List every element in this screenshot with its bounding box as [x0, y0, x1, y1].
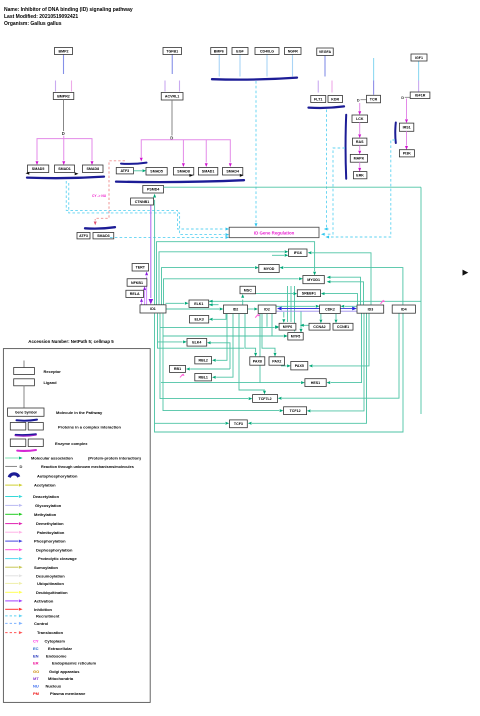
wire VEGFA to FLT1 KDR — [324, 56, 326, 77]
svg-text:Ubiquitination: Ubiquitination — [37, 581, 64, 586]
wire IRS1 to PI3K — [406, 131, 408, 145]
svg-text:D: D — [357, 97, 360, 102]
wire TCR chain LCK RAS MAPK ERK — [359, 103, 361, 111]
association MYF6 right line — [300, 324, 309, 326]
node RB1 — [170, 365, 186, 372]
node SMAD1 row2 — [198, 168, 217, 176]
svg-text:Glycosylation: Glycosylation — [35, 503, 62, 508]
svg-text:BMP2: BMP2 — [59, 49, 69, 53]
association right edge bus — [420, 187, 422, 414]
wire BMP2 to BMPR2 — [63, 55, 65, 75]
legend phosphorylation — [5, 540, 18, 542]
node SMAD4 row2 — [223, 168, 243, 176]
svg-text:MYF6: MYF6 — [283, 325, 293, 329]
svg-text:NGFR: NGFR — [288, 49, 299, 53]
node CD40LG — [255, 48, 279, 55]
svg-text:Cytoplasm: Cytoplasm — [45, 639, 66, 644]
node PAX2 — [269, 357, 285, 365]
association ID3 to CDK2 — [345, 305, 357, 307]
activation ID1 to TERT — [146, 277, 148, 305]
node SMAD3 — [93, 233, 114, 239]
svg-text:PAX2: PAX2 — [272, 359, 281, 363]
svg-text:IGF1: IGF1 — [415, 56, 423, 60]
svg-text:ELK4: ELK4 — [192, 341, 201, 345]
svg-text:PSMD4: PSMD4 — [147, 188, 159, 192]
svg-text:Recruitment: Recruitment — [36, 614, 60, 619]
svg-text:VEGFA: VEGFA — [319, 50, 332, 54]
association ID1 down-bus A TCF3 and bottom bus — [155, 313, 404, 432]
node MYOD — [259, 265, 279, 273]
node SREBF1 — [297, 290, 320, 297]
dephosphorylation mark near ID2b — [255, 314, 258, 317]
svg-text:Autophosphorylation: Autophosphorylation — [37, 474, 78, 479]
legend proteins in complex — [17, 420, 38, 421]
control dashed IRS1 complex to ID gene regulation — [330, 140, 395, 237]
legend activation — [5, 600, 18, 602]
svg-text:Dephosphorylation: Dephosphorylation — [36, 547, 73, 552]
node SMAD8 row2 — [173, 168, 193, 176]
svg-text:Mitochondria: Mitochondria — [48, 676, 74, 681]
node RBL2 — [195, 357, 212, 364]
dephosphorylation mark near ID3 — [381, 300, 384, 303]
svg-text:SMAD4: SMAD4 — [226, 170, 239, 174]
svg-text:Endosome: Endosome — [46, 653, 67, 658]
association MYOD right from ID4 — [284, 268, 403, 305]
node SMAD8 — [83, 165, 104, 173]
svg-text:Endoplasmic reticulum: Endoplasmic reticulum — [52, 661, 96, 666]
svg-text:Inhibition: Inhibition — [34, 607, 53, 612]
association ID1 up-bus to IFI6 — [159, 252, 284, 305]
association ID3 down-bus to PAX5 — [313, 313, 369, 366]
svg-text:EC: EC — [33, 646, 39, 651]
svg-text:Accession Number: NetPath 5; c: Accession Number: NetPath 5; cellmap 5 — [28, 339, 114, 344]
node ID3 — [357, 305, 384, 313]
association ID4 to TCF7L2 — [282, 313, 399, 398]
node ID1 — [140, 305, 166, 313]
node PAX8 — [250, 357, 265, 365]
wire IGF1 to IGF1R — [418, 61, 420, 81]
svg-text:Last Modified: 20210519092421: Last Modified: 20210519092421 — [4, 14, 78, 20]
svg-text:(Protein-protein interaction): (Protein-protein interaction) — [88, 456, 142, 461]
svg-text:Receptor: Receptor — [44, 369, 62, 374]
complex bracket FLT1 KDR — [309, 106, 345, 108]
svg-text:PI3K: PI3K — [403, 152, 411, 156]
node RBL1 — [195, 374, 212, 381]
association MYOD1 right lines to ID3 — [331, 277, 361, 305]
association ID2 to RBL1 — [216, 314, 233, 378]
svg-text:ATF3: ATF3 — [120, 169, 129, 173]
svg-text:SMAD1: SMAD1 — [202, 170, 215, 174]
node MYF5 — [288, 333, 303, 340]
svg-text:SMAD3: SMAD3 — [97, 234, 110, 238]
control dashed SMAD3 complex to ID gene regulation — [110, 236, 225, 238]
svg-text:MT: MT — [33, 676, 39, 681]
node PI3K — [399, 150, 414, 157]
svg-text:RB1: RB1 — [174, 367, 181, 371]
node EGF — [232, 48, 248, 55]
legend ubiquitination — [5, 582, 18, 584]
node IGF1R — [410, 92, 430, 99]
association ID3 down-bus to HES1 — [331, 313, 362, 383]
association arrows row2 — [189, 174, 193, 177]
node ATF3 row2 — [116, 168, 133, 174]
svg-text:Gene Symbol: Gene Symbol — [15, 410, 37, 414]
association ID1 to ID2 — [166, 308, 220, 310]
node PAX5 — [291, 362, 308, 370]
control dashed row1 complex to ID gene regulation — [66, 181, 224, 229]
node SMAD5 — [28, 165, 49, 173]
svg-text:CY -> NU: CY -> NU — [92, 194, 107, 198]
svg-text:CCNA2: CCNA2 — [313, 325, 325, 329]
svg-text:Palmitoylation: Palmitoylation — [37, 530, 65, 535]
node TCR — [367, 95, 381, 103]
node RELA — [126, 290, 144, 297]
legend ligand — [14, 379, 35, 386]
svg-text:CD40LG: CD40LG — [260, 49, 274, 53]
node NGFR — [285, 48, 302, 55]
association SREBF1 right to ID3 — [324, 294, 357, 305]
association ELK3 to ID2 bottom — [213, 314, 226, 320]
complex bracket TCR chain vertical — [345, 115, 348, 179]
activation ID1 to RELA — [141, 302, 143, 305]
svg-text:ER: ER — [33, 661, 39, 666]
svg-text:MYOD: MYOD — [264, 267, 275, 271]
node TCF3 — [230, 420, 248, 428]
svg-text:SMAD5: SMAD5 — [150, 170, 163, 174]
svg-text:Reaction through unknown mecha: Reaction through unknown mechanisms/mole… — [41, 465, 134, 469]
slide marker triangle — [463, 270, 469, 276]
complex bracket IRS1 vertical — [394, 123, 397, 144]
svg-text:ATF3: ATF3 — [79, 234, 88, 238]
wire violet ID2b to ID3 behind CDK2 — [276, 310, 357, 312]
svg-text:MSC: MSC — [244, 288, 252, 292]
association ID1 up-bus to MYOD — [162, 268, 255, 305]
legend acetylation — [5, 484, 18, 486]
svg-text:RBL1: RBL1 — [199, 376, 208, 380]
legend palmitoylation — [5, 531, 18, 533]
association MYF5 left arrow — [284, 335, 288, 338]
svg-text:ID4: ID4 — [401, 307, 407, 311]
activation ID1 to NFKB1 — [144, 291, 146, 305]
association ID1 down-bus D to TCF12 MYF5 — [163, 314, 279, 411]
association ID2b to HES1 left — [259, 314, 261, 383]
svg-text:Deubiquitination: Deubiquitination — [36, 590, 68, 595]
association ID2 to ID2b — [248, 308, 254, 310]
legend receptor — [23, 361, 25, 368]
wire D2 branch to ATF3-SMAD complex row — [141, 140, 230, 163]
node ELK1 — [189, 300, 209, 307]
node CCNE1 — [333, 323, 353, 330]
legend dephosphorylation — [5, 549, 18, 551]
node HES1 — [305, 379, 326, 387]
node BMP2 — [55, 48, 73, 55]
svg-text:MYOD1: MYOD1 — [307, 278, 320, 282]
association ID1 up-bus to MYOD1 left — [164, 279, 299, 305]
association ID1 down-bus B to ELK4 — [158, 314, 183, 342]
svg-text:Translocation: Translocation — [37, 630, 64, 635]
svg-text:TCF12: TCF12 — [290, 409, 301, 413]
svg-text:Activation: Activation — [34, 599, 54, 604]
phosphorylation CDK2 to ID3 blue — [340, 308, 352, 310]
node NFKB1 — [127, 279, 147, 287]
association ID2b to MYF6 left — [266, 314, 268, 327]
legend desumoylation — [5, 575, 18, 577]
svg-text:Molecular association: Molecular association — [31, 456, 73, 461]
svg-text:Desumoylation: Desumoylation — [36, 573, 65, 578]
svg-text:HES1: HES1 — [311, 381, 320, 385]
association bus PSMD4 to right edge — [164, 186, 422, 188]
wire ACVRL1 to D node — [171, 100, 173, 136]
svg-text:ID1: ID1 — [150, 307, 156, 311]
association second arrow into IFI6 — [272, 254, 284, 256]
svg-text:ID2: ID2 — [264, 308, 270, 312]
legend control — [5, 622, 18, 624]
node ACVRL1 — [161, 93, 183, 101]
svg-text:ERK: ERK — [356, 174, 364, 178]
svg-text:TCF3: TCF3 — [234, 422, 243, 426]
association ID1 down-bus C to TCF7L2 MYF6 HES1 — [160, 314, 248, 399]
node CCNA2 — [309, 323, 330, 330]
complex bracket under SMAD row1 — [27, 177, 104, 179]
node ELK4 — [187, 339, 207, 347]
svg-text:ACVRL1: ACVRL1 — [165, 95, 179, 99]
svg-text:SMAD8: SMAD8 — [177, 170, 190, 174]
node ERK — [353, 172, 367, 179]
legend panel — [3, 349, 150, 703]
association PAX5 left arrow — [281, 365, 287, 367]
association ID2 to MSC — [242, 300, 244, 305]
control dashed row2 complex to ID gene regulation — [69, 183, 225, 235]
activation CTNNB1 to ID1 — [150, 205, 152, 298]
svg-text:NU: NU — [33, 684, 39, 689]
node CTNNB1 — [131, 198, 154, 205]
phosphorylation CDK2 to ID2b blue — [282, 308, 320, 310]
association ID2 to TCF7L2 top — [239, 314, 265, 391]
node ID2b — [258, 305, 276, 314]
node MSC — [240, 286, 256, 294]
legend deubiquitination — [5, 591, 18, 593]
association ELK1 right lines — [209, 300, 421, 302]
association ELK4 right line — [211, 343, 230, 369]
node BMPR2 — [53, 93, 74, 100]
svg-text:Plasma membrane: Plasma membrane — [50, 691, 86, 696]
legend proteolytic cleavage — [5, 558, 18, 560]
svg-text:FLT1: FLT1 — [314, 97, 322, 101]
node FLT1 — [311, 96, 326, 103]
legend methylation — [5, 513, 18, 515]
association SREBF1 left line — [253, 293, 293, 295]
svg-text:Golgi apparatus: Golgi apparatus — [49, 669, 80, 674]
association ID2b to MYF5 left — [271, 314, 273, 336]
control dashed FLT1 complex to ID gene regulation — [327, 110, 329, 230]
complex bracket ligand group — [212, 78, 297, 80]
node IFI6 — [289, 249, 308, 257]
complex bracket above ATF3 — [121, 163, 147, 164]
svg-text:Extracellular: Extracellular — [48, 646, 72, 651]
legend gene symbol — [8, 408, 44, 416]
svg-text:MAPK: MAPK — [354, 157, 365, 161]
svg-text:RAS: RAS — [356, 140, 364, 144]
control dashed from ligand complex to ID gene regulation top — [255, 81, 257, 222]
legend demethylation — [5, 523, 18, 525]
svg-text:CY: CY — [33, 639, 39, 644]
complex bracket under row2 — [116, 180, 244, 182]
svg-text:EGF: EGF — [236, 49, 244, 53]
svg-text:CDK2: CDK2 — [325, 308, 335, 312]
association ID2 to RBL2 — [216, 314, 227, 361]
legend sumoylation — [5, 566, 18, 568]
association to MYF6 top — [283, 312, 285, 318]
svg-text:TGFB1: TGFB1 — [166, 49, 178, 53]
svg-text:Control: Control — [34, 621, 48, 626]
node KDR — [328, 96, 343, 103]
svg-text:Sumoylation: Sumoylation — [34, 565, 59, 570]
svg-text:IFI16: IFI16 — [294, 251, 302, 255]
svg-text:Enzyme complex: Enzyme complex — [55, 441, 88, 446]
node VEGFA — [317, 48, 334, 56]
svg-text:Phosphorylation: Phosphorylation — [34, 539, 66, 544]
legend glycosylation — [5, 504, 18, 506]
node ID Gene Regulation — [229, 227, 319, 237]
legend enzyme complex — [16, 435, 37, 436]
svg-text:PAX5: PAX5 — [295, 364, 304, 368]
svg-text:D: D — [62, 131, 65, 136]
node IGF1 — [411, 54, 427, 61]
svg-text:PAX8: PAX8 — [253, 359, 262, 363]
legend reaction unknown — [5, 465, 17, 467]
svg-text:CCNE1: CCNE1 — [337, 325, 349, 329]
node LCK — [352, 115, 368, 123]
association ID1 bus to PAX row — [158, 342, 245, 348]
node IRS1 — [399, 123, 413, 131]
node ID2 — [224, 305, 248, 314]
svg-text:SMAD1: SMAD1 — [58, 167, 71, 171]
svg-text:ELK1: ELK1 — [194, 302, 203, 306]
svg-text:TCR: TCR — [370, 97, 378, 101]
wire D branch to SMAD5 SMAD1 SMAD8 — [37, 139, 92, 161]
association arrows row1 — [26, 172, 30, 175]
association ID2 to PAX8 — [245, 314, 256, 353]
svg-text:Ligand: Ligand — [44, 380, 58, 385]
control dashed TCR complex to ID gene regulation — [325, 148, 345, 234]
association MYF6 left arrow — [275, 325, 279, 328]
node MYOD1 — [303, 276, 324, 284]
svg-text:GO: GO — [33, 669, 39, 674]
association to MYF5 top — [300, 312, 302, 329]
legend inhibition — [5, 608, 18, 610]
svg-text:Deacetylation: Deacetylation — [33, 494, 60, 499]
svg-text:SMAD8: SMAD8 — [87, 167, 100, 171]
node TCF7L2 — [253, 395, 278, 403]
svg-text:PM: PM — [33, 691, 40, 696]
node MYF6 — [279, 323, 296, 330]
association ID3 down-bus to TCF12 — [311, 313, 364, 411]
svg-text:LCK: LCK — [356, 117, 364, 121]
svg-text:Methylation: Methylation — [34, 512, 57, 517]
wire BMPR2 to D node — [63, 100, 65, 132]
wire TGFB1 to ACVRL1 — [171, 55, 173, 75]
node SMAD1 — [55, 165, 75, 173]
svg-text:Acetylation: Acetylation — [34, 483, 56, 488]
node ATF3 cytoplasmic — [77, 233, 90, 239]
legend molecular association — [5, 457, 18, 459]
node BMP6 — [211, 48, 227, 55]
svg-text:RELA: RELA — [130, 292, 140, 296]
dephosphorylation mark near RB1 — [180, 374, 183, 377]
svg-text:SMAD5: SMAD5 — [32, 167, 45, 171]
svg-text:Organism: Gallus gallus: Organism: Gallus gallus — [4, 21, 62, 27]
svg-text:Demethylation: Demethylation — [36, 521, 64, 526]
association ID2b to PAX2 — [262, 314, 275, 353]
svg-text:ID3: ID3 — [368, 307, 374, 311]
svg-text:RBL2: RBL2 — [199, 359, 208, 363]
translocation dashed CY to NU — [95, 161, 125, 221]
svg-text:Molecule in the Pathway: Molecule in the Pathway — [56, 410, 103, 415]
node PSMD4 — [143, 186, 164, 194]
svg-text:ID Gene Regulation: ID Gene Regulation — [254, 230, 295, 235]
wire IGF1R to IRS1 — [406, 99, 408, 120]
association ID1 to ELK1 — [166, 302, 185, 304]
svg-text:ID2: ID2 — [233, 308, 239, 312]
node RAS — [353, 138, 367, 145]
association ID2b to CDK2 — [276, 305, 315, 307]
node MAPK — [350, 154, 367, 162]
svg-text:Proteins in a complex interact: Proteins in a complex interaction — [58, 425, 121, 430]
svg-text:IGF1R: IGF1R — [415, 94, 426, 98]
node CDK2 — [320, 305, 341, 314]
svg-text:CTNNB1: CTNNB1 — [135, 200, 150, 204]
complex bracket ATF3 SMAD3 — [85, 227, 115, 228]
svg-text:KDR: KDR — [331, 97, 339, 101]
association CDK2 to CCNE1 — [335, 314, 337, 320]
association ID1 up-bus to MYOD1 — [157, 242, 315, 305]
svg-text:Nucleus: Nucleus — [46, 684, 62, 689]
legend translocation — [5, 632, 18, 634]
node ID4 — [392, 305, 415, 313]
node ELK3 — [190, 316, 209, 324]
svg-text:MYF5: MYF5 — [291, 335, 301, 339]
node SMAD5 row2 — [146, 168, 167, 176]
wire ligand group to complex — [218, 55, 220, 77]
svg-text:EN: EN — [33, 653, 39, 658]
svg-text:TERT: TERT — [136, 266, 146, 270]
node TERT — [132, 264, 148, 272]
svg-text:D: D — [401, 95, 404, 100]
svg-text:Proteolytic cleavage: Proteolytic cleavage — [38, 556, 77, 561]
association ID3 down-bus to TCF3 — [252, 313, 367, 423]
association IFI6 right from ID3 — [312, 253, 371, 305]
association ID1 to PSMD4 — [154, 200, 156, 305]
svg-text:SREBF1: SREBF1 — [302, 292, 316, 296]
svg-text:NFKB1: NFKB1 — [131, 281, 143, 285]
svg-text:D: D — [20, 464, 23, 469]
node TCF12 — [284, 407, 307, 415]
svg-text:Name: Inhibitor of DNA binding: Name: Inhibitor of DNA binding (ID) sign… — [4, 7, 133, 13]
svg-text:BMP6: BMP6 — [214, 49, 224, 53]
wire into TCR — [373, 58, 375, 81]
svg-text:TCF7L2: TCF7L2 — [259, 397, 272, 401]
association to RB1 — [190, 368, 230, 370]
legend autophosphorylation — [9, 474, 19, 477]
legend deacetylation — [5, 496, 18, 498]
association arrow ATF3 to SMAD5 — [133, 170, 142, 172]
association gap verticals — [287, 286, 289, 322]
node TGFB1 — [163, 48, 182, 55]
svg-text:ELK3: ELK3 — [195, 318, 204, 322]
svg-text:BMPR2: BMPR2 — [57, 94, 70, 98]
legend recruitment — [5, 615, 18, 617]
svg-text:IRS1: IRS1 — [403, 126, 411, 130]
